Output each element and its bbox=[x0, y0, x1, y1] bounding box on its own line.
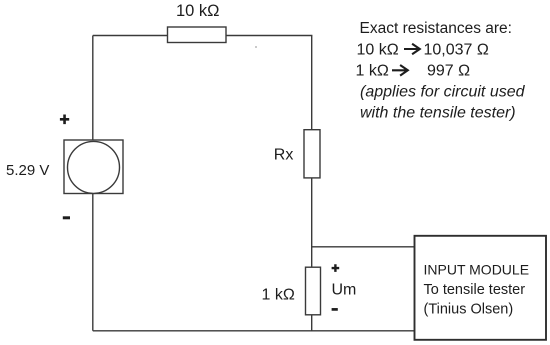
voltage source V1 (square with circle) bbox=[64, 140, 123, 194]
resistor Rx bbox=[304, 130, 320, 178]
svg-text:To tensile tester: To tensile tester bbox=[424, 282, 526, 298]
resistor 1 kOhm bbox=[306, 267, 321, 315]
svg-text:5.29 V: 5.29 V bbox=[6, 162, 49, 179]
label plus terminal of source bbox=[60, 115, 69, 125]
wire from node to input module bbox=[312, 246, 415, 248]
svg-text:10,037 Ω: 10,037 Ω bbox=[424, 41, 489, 58]
stray speck bbox=[255, 46, 257, 48]
arrow in line "1 kOhm -> 997 Ohm" bbox=[392, 65, 408, 76]
svg-text:10 kΩ: 10 kΩ bbox=[357, 41, 399, 58]
wire middle vertical branch through Rx and 1k bbox=[311, 36, 313, 331]
svg-text:997 Ω: 997 Ω bbox=[427, 63, 470, 80]
note text block: exact resistances bbox=[356, 20, 526, 122]
svg-text:Exact resistances are:: Exact resistances are: bbox=[360, 20, 512, 37]
resistor 10 kOhm (top) bbox=[168, 27, 227, 43]
wire top horizontal from source branch to middle branch bbox=[93, 35, 313, 37]
label plus of Um bbox=[332, 264, 340, 272]
svg-text:Um: Um bbox=[332, 282, 357, 299]
svg-text:10 kΩ: 10 kΩ bbox=[176, 2, 220, 20]
svg-text:INPUT MODULE: INPUT MODULE bbox=[424, 261, 530, 277]
wire left vertical through voltage source bbox=[92, 36, 94, 331]
arrow in line "10 kOhm -> 10,037 Ohm" bbox=[404, 44, 420, 55]
label minus terminal of source bbox=[63, 216, 70, 219]
svg-text:Rx: Rx bbox=[274, 147, 294, 164]
svg-text:with the tensile tester): with the tensile tester) bbox=[360, 104, 516, 121]
label minus of Um bbox=[332, 308, 338, 311]
input module box bbox=[415, 236, 547, 340]
wire bottom horizontal bbox=[93, 330, 415, 332]
svg-text:1 kΩ: 1 kΩ bbox=[262, 287, 295, 304]
svg-text:(applies for circuit used: (applies for circuit used bbox=[360, 84, 526, 101]
svg-text:1 kΩ: 1 kΩ bbox=[356, 63, 389, 80]
svg-text:(Tinius Olsen): (Tinius Olsen) bbox=[424, 301, 514, 317]
